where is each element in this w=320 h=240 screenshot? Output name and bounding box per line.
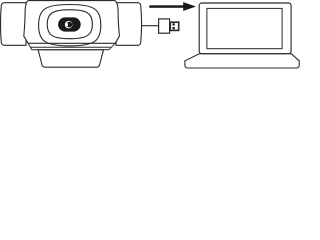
clip bar top edge xyxy=(30,46,110,48)
arrow head xyxy=(183,2,196,11)
webcam body xyxy=(24,1,120,44)
laptop base xyxy=(185,54,299,68)
webcam left wing xyxy=(1,3,27,46)
lens middle ring xyxy=(47,10,92,39)
laptop screen outer xyxy=(199,3,291,54)
usb plug metal shell xyxy=(170,22,178,30)
usb plug body xyxy=(159,19,170,33)
lens outer ring xyxy=(39,5,101,46)
lens black pill xyxy=(58,17,81,31)
usb cable wire xyxy=(141,25,158,27)
laptop screen inner xyxy=(207,8,282,48)
clip top plate xyxy=(28,43,115,50)
clip base xyxy=(38,50,103,67)
lens iris white circle xyxy=(65,21,73,29)
webcam right wing xyxy=(116,3,142,46)
usb contact hole upper xyxy=(173,23,175,25)
arrow shaft xyxy=(149,5,184,8)
usb contact hole lower xyxy=(173,27,175,29)
